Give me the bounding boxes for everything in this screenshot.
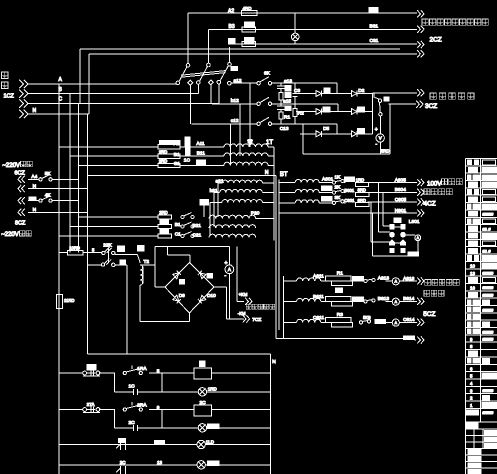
wire T2 bottom to bridge bottom <box>140 285 189 321</box>
svg-text:C605: C605 <box>395 197 407 203</box>
resistor R3 <box>321 312 353 327</box>
svg-text:A605: A605 <box>395 177 407 183</box>
pushbutton 2TA <box>83 402 101 412</box>
svg-text:1RA: 1RA <box>137 366 147 372</box>
svg-text:BT: BT <box>280 172 288 178</box>
svg-text:######: ###### <box>483 272 494 276</box>
arrow output A616 <box>417 277 424 284</box>
winding C611 <box>284 315 325 323</box>
winding A611 <box>284 274 324 282</box>
wire rail to bridge left <box>155 247 165 287</box>
svg-text:A601: A601 <box>322 176 334 182</box>
wire 1T phase A feed <box>59 146 224 148</box>
wire diode row 3 <box>300 124 372 134</box>
connector L601 header <box>394 218 420 225</box>
contact 2C aux row 4 <box>116 460 126 474</box>
lamp 2 indicator <box>198 424 219 432</box>
label 5CZ <box>423 311 435 318</box>
winding C21 <box>192 232 255 238</box>
svg-text:2RD: 2RD <box>159 149 167 154</box>
wire input neutral <box>28 108 89 114</box>
fuse phase B <box>229 22 256 32</box>
wire 380V output phase A row <box>188 13 417 63</box>
switch 6K pole b <box>257 97 277 105</box>
label 4CZ <box>424 201 436 208</box>
svg-text:2RD: 2RD <box>159 210 167 215</box>
svg-text:D9: D9 <box>179 293 185 299</box>
marker row2 right <box>357 107 364 112</box>
wire neutral bottom feed <box>87 353 270 355</box>
svg-text:C21: C21 <box>192 232 201 238</box>
svg-text:B21: B21 <box>192 223 201 229</box>
svg-text:N: N <box>33 184 37 190</box>
winding P20 <box>209 211 274 219</box>
svg-text:13: 13 <box>157 460 163 465</box>
wire A605 output <box>369 177 418 183</box>
arrow C605 <box>417 198 424 205</box>
diode D5 <box>316 126 330 137</box>
marker battery return <box>403 336 414 340</box>
arrow battery return <box>415 336 425 343</box>
bridge diode top-right <box>198 271 206 279</box>
wire rows to DC switch bus <box>371 94 373 134</box>
marker C11 <box>197 160 206 165</box>
svg-text:L601: L601 <box>409 219 420 225</box>
wire b12 tap to transformer 1T <box>239 104 241 156</box>
ammeter small DC <box>225 247 234 319</box>
switch 1K blade B <box>186 147 191 156</box>
latch branch 1C <box>114 373 162 395</box>
label C31 <box>370 38 379 44</box>
svg-text:c12: c12 <box>231 118 239 124</box>
switch 2K row 3 <box>175 232 194 238</box>
svg-text:B1: B1 <box>174 152 180 158</box>
svg-text:A611: A611 <box>313 274 324 280</box>
label 6CZ <box>15 170 26 176</box>
svg-text:4RD: 4RD <box>243 6 253 11</box>
transformer 1T primary coil B <box>224 153 268 156</box>
terminal marker on A row <box>369 7 378 12</box>
switch 22K lower pole <box>87 258 115 266</box>
wire diode row 1 <box>296 83 372 93</box>
text big DC output <box>430 93 474 99</box>
pushbutton 1TA <box>83 365 101 376</box>
svg-text:5RD: 5RD <box>381 149 389 154</box>
parts list table frame <box>466 159 497 474</box>
svg-text:1C: 1C <box>129 384 136 390</box>
switch 2K row 2 <box>175 222 194 228</box>
switch on DC output <box>374 93 382 116</box>
node a13 and capacitor C1 <box>277 78 292 92</box>
svg-text:######: ###### <box>483 330 494 334</box>
winding BT C601 <box>279 200 333 203</box>
ammeter row C611 <box>386 319 400 326</box>
svg-text:######: ###### <box>483 389 494 393</box>
fuse 10RD <box>59 246 101 255</box>
svg-text:R3: R3 <box>337 312 343 318</box>
bus phase A vertical <box>58 84 60 474</box>
wire DC rail top <box>155 246 229 248</box>
fuse 2RD secondary row 2 <box>70 220 172 229</box>
text adjustable line2 <box>424 189 452 195</box>
arrow small DC plus <box>245 298 252 305</box>
capacitor on b13 leg <box>277 99 291 112</box>
label 3CZ <box>425 103 437 110</box>
arrow 380V output C <box>417 41 424 48</box>
label 1C contact <box>184 158 191 164</box>
text 380V output adjustable <box>422 19 488 25</box>
bus neutral vertical <box>86 114 88 354</box>
wire neutral long row <box>87 170 276 176</box>
winding B611 <box>284 294 324 302</box>
input arrow phase B <box>19 90 28 98</box>
svg-text:2RD: 2RD <box>159 159 167 164</box>
switch 1K on A601 <box>322 175 346 185</box>
switch 22K link <box>108 249 110 263</box>
svg-text:R1: R1 <box>337 271 343 277</box>
svg-text:5CZ: 5CZ <box>423 311 435 318</box>
transformer 1T primary coil C <box>224 162 268 165</box>
arrow output B614 <box>417 298 424 305</box>
svg-text:~220V: ~220V <box>1 232 19 238</box>
svg-text:B614: B614 <box>403 296 415 302</box>
svg-text:1K: 1K <box>335 175 342 181</box>
switch 4K row <box>28 192 79 202</box>
svg-text:N: N <box>33 108 37 114</box>
fuse 4RD phase A <box>228 6 257 16</box>
wire b13 row <box>277 103 338 105</box>
fuse 5RD wire <box>303 104 390 154</box>
svg-text:C611: C611 <box>313 315 324 321</box>
svg-text:C1: C1 <box>175 232 181 238</box>
svg-text:A616: A616 <box>403 276 415 282</box>
svg-text:A1: A1 <box>174 141 180 147</box>
svg-text:2K: 2K <box>335 185 342 191</box>
winding B21 <box>192 223 255 229</box>
svg-text:5K6: 5K6 <box>363 315 371 320</box>
transformer T2 <box>140 259 155 285</box>
svg-text:16: 16 <box>470 285 475 290</box>
wire 380V output phase C row <box>230 44 418 62</box>
switch 22K upper pole <box>102 243 115 255</box>
svg-text:+KM: +KM <box>239 292 248 297</box>
svg-text:1LD: 1LD <box>206 440 215 445</box>
text small DC output <box>246 304 274 309</box>
label 13 <box>157 460 163 465</box>
switch 2K on B601 <box>321 185 345 195</box>
wire control row 3 <box>59 444 270 446</box>
arrow 380V output A <box>417 10 424 17</box>
label 7CZ <box>252 317 261 323</box>
arrow output C614 <box>417 319 424 326</box>
label BT <box>280 172 288 178</box>
svg-text:7CZ: 7CZ <box>252 317 261 323</box>
svg-text:9: 9 <box>157 405 160 411</box>
svg-text:######: ###### <box>483 294 494 298</box>
bridge diode top-left <box>173 271 181 279</box>
arrow A605 <box>417 179 424 186</box>
svg-text:######: ###### <box>483 411 494 415</box>
text input label <box>2 72 9 89</box>
label B11 <box>197 151 206 157</box>
svg-text:N601: N601 <box>395 208 407 214</box>
lamp 1LD <box>197 440 215 449</box>
wire minus output <box>226 311 246 319</box>
switch row C611 <box>359 315 385 324</box>
wire N601 output <box>279 208 417 214</box>
svg-text:1RD: 1RD <box>208 387 218 392</box>
title block lower grid <box>466 422 497 474</box>
diode D1 <box>316 91 322 97</box>
wire control row 1 <box>59 372 270 374</box>
resistor R2 <box>293 109 304 124</box>
wire 2CZ feed from phase C bus <box>80 49 400 104</box>
text battery line2 <box>424 290 444 296</box>
meter on L601 <box>405 235 420 252</box>
svg-text:11RD: 11RD <box>64 298 74 303</box>
resistor on a13 leg <box>279 93 283 104</box>
wire lamp row 2 <box>114 427 270 429</box>
svg-text:3CZ: 3CZ <box>425 103 437 110</box>
resistor R1 <box>321 271 353 286</box>
wire C605 output <box>368 197 417 203</box>
svg-text:N: N <box>33 207 37 213</box>
winding BT A601 <box>279 180 333 183</box>
latch branch 2C <box>114 410 162 431</box>
arrow 3CZ output <box>416 101 423 108</box>
marker row1 <box>324 88 330 93</box>
svg-text:B611: B611 <box>313 294 324 300</box>
terminal block marker b13 <box>285 106 291 111</box>
label A11 <box>196 141 205 147</box>
svg-text:A2: A2 <box>228 9 234 15</box>
wire BT bracket vertical <box>283 276 285 339</box>
svg-text:3K: 3K <box>335 195 342 201</box>
marker bridge right <box>207 274 212 279</box>
svg-text:V: V <box>379 136 382 141</box>
svg-text:B601: B601 <box>344 188 354 193</box>
connector L601 pins <box>390 225 406 253</box>
bus phase B vertical <box>69 94 71 253</box>
wire 6CZ N <box>28 184 87 190</box>
switch 6K pole a <box>257 70 277 85</box>
input arrow phase C <box>19 99 28 107</box>
text 100V output adjustable <box>427 179 462 188</box>
wire output A616 <box>399 276 417 282</box>
diode D6 <box>351 131 357 137</box>
marker row3 right <box>357 128 364 133</box>
arrow 8CZ N <box>18 209 25 216</box>
wire B604 output <box>368 187 417 193</box>
fuse 3RD on B601 <box>344 188 369 197</box>
svg-text:+: + <box>375 127 378 133</box>
svg-text:B11: B11 <box>197 151 206 157</box>
wire 1T phase C feed <box>79 164 225 166</box>
label 1CZ <box>4 94 15 100</box>
fuse 2RD phase A <box>158 140 180 148</box>
wire rail jog to bridge top <box>168 247 190 263</box>
svg-text:1CZ: 1CZ <box>4 94 15 100</box>
svg-text:######: ###### <box>483 338 494 342</box>
arrow B604 <box>417 189 424 196</box>
bus phase C vertical <box>78 104 80 253</box>
tap arrow on 1T <box>248 141 253 146</box>
ammeter row A611 <box>386 278 400 285</box>
arrow big DC output <box>417 89 424 96</box>
switch 6K pole c <box>257 117 277 125</box>
coil 1C <box>194 361 212 379</box>
arrow 7CZ <box>243 315 250 322</box>
wire BT feed vertical <box>278 179 280 330</box>
arrow 380V output B <box>417 26 424 33</box>
fuse phase C <box>229 37 256 46</box>
svg-text:######: ###### <box>483 286 494 290</box>
switch 2K row 1 <box>181 213 194 219</box>
indicator lamp on 380V lines <box>291 13 299 44</box>
wire input phase B <box>28 87 198 94</box>
marker on 22K output 2 <box>138 245 145 251</box>
svg-text:2TA: 2TA <box>87 402 95 407</box>
text battery output adjustable <box>425 280 459 286</box>
svg-text:A: A <box>228 267 231 272</box>
knife switch 1K main 3-pole <box>176 62 231 85</box>
fuse 6RD on C601 <box>344 198 369 207</box>
wire knife output to b12 row <box>210 85 212 104</box>
svg-text:1C: 1C <box>184 158 191 164</box>
input arrow neutral <box>19 110 28 118</box>
bridge diode D10 <box>198 293 216 303</box>
contact 2RA <box>123 402 160 411</box>
wire B604 drop to L601 <box>383 192 390 226</box>
svg-text:1T: 1T <box>266 140 273 146</box>
winding BT B601 <box>279 190 333 193</box>
label 2CZ <box>430 37 442 44</box>
transformer 1T primary coil A <box>224 144 268 147</box>
svg-text:~220V: ~220V <box>2 163 20 169</box>
svg-text:6CZ: 6CZ <box>15 170 26 176</box>
wire diode row 2 <box>296 104 372 112</box>
wire output C614 <box>399 317 417 323</box>
lamp row 4 <box>197 461 219 469</box>
wire output B614 <box>399 296 417 302</box>
node b12 <box>212 98 257 104</box>
switch 5K on A4 <box>28 171 79 181</box>
svg-text:B604: B604 <box>395 187 407 193</box>
svg-text:D2: D2 <box>358 88 364 94</box>
svg-text:B1: B1 <box>175 222 181 228</box>
svg-text:N: N <box>265 170 269 176</box>
svg-text:##. #: ##. # <box>483 227 491 231</box>
wire 380V output phase B row <box>209 29 418 63</box>
wire neutral drop to bottom bus <box>275 175 277 338</box>
wire 8CZ N <box>28 207 87 213</box>
svg-text:-KM: -KM <box>238 311 246 316</box>
wire input phase C <box>28 97 219 104</box>
diode D3 <box>316 109 322 115</box>
svg-text:R1: R1 <box>284 115 290 121</box>
label 1T <box>266 140 273 146</box>
terminal marker near knife switch <box>231 67 238 71</box>
svg-text:10RD: 10RD <box>69 246 80 251</box>
arrow 2CZ output <box>417 50 424 57</box>
label B31 <box>370 24 379 30</box>
switch row B611 <box>352 296 389 303</box>
lamp 1 indicator <box>198 387 217 396</box>
arrow 6CZ N <box>18 185 25 192</box>
wire a12 tap to transformer 1T <box>248 83 252 147</box>
svg-text:N: N <box>272 359 276 365</box>
wire phase C stub to knife switch <box>218 84 220 104</box>
wire control row 2 <box>59 409 270 411</box>
svg-text:##. #: ##. # <box>483 250 491 254</box>
wire c13 row <box>277 124 337 154</box>
wire C605 drop to L601 <box>371 202 390 242</box>
winding a21 <box>216 179 274 185</box>
wire control row 4 <box>59 464 270 466</box>
text ~220V output bottom <box>1 231 31 238</box>
arrow 6CZ A4 <box>18 176 25 183</box>
wire lamp row 1 <box>114 391 270 393</box>
svg-text:2C: 2C <box>129 420 136 426</box>
switch 1K blade A <box>185 137 190 146</box>
wire 1T phase B feed <box>70 155 224 157</box>
svg-text:b12: b12 <box>231 98 239 104</box>
svg-text:13: 13 <box>470 271 475 276</box>
svg-text:5: 5 <box>157 369 160 375</box>
svg-text:C614: C614 <box>403 317 415 323</box>
wire c12 tap to transformer 1T <box>230 124 232 166</box>
wire 1T common right vertical <box>268 147 274 240</box>
input arrow phase A <box>19 80 28 88</box>
resistor R2 <box>321 288 353 306</box>
wire input phase A <box>28 77 176 84</box>
contact 1RA <box>123 366 160 375</box>
staircase taps left of windings <box>200 183 222 236</box>
marker row2 left <box>323 107 330 112</box>
switch 3K on C601 <box>321 195 345 205</box>
marker row 3 <box>155 440 165 444</box>
svg-text:10: 10 <box>470 263 475 268</box>
arrow N601 <box>417 209 424 216</box>
fuse 11RD on bus A <box>57 295 75 309</box>
svg-text:C13: C13 <box>280 126 289 132</box>
svg-text:A11: A11 <box>196 141 205 147</box>
wire 22K top pole to T2 <box>115 255 140 264</box>
wire 3CZ output <box>389 103 417 105</box>
svg-text:4CZ: 4CZ <box>424 201 436 208</box>
wire phase B stub to knife switch <box>197 84 199 93</box>
winding b21 <box>210 188 274 194</box>
wire knife output to c12 row <box>189 85 191 124</box>
fuse 1RD on A601 <box>344 177 368 186</box>
wire a13 row <box>277 82 337 84</box>
svg-text:6K: 6K <box>264 70 271 76</box>
arrow 8CZ row with fuse <box>18 197 25 204</box>
svg-text:T2: T2 <box>144 259 150 265</box>
wire battery return row <box>276 338 403 340</box>
winding c21 <box>222 199 274 202</box>
svg-text:A4: A4 <box>31 174 37 180</box>
resistor R1 on b13 leg <box>279 112 290 124</box>
fuse 2RD secondary row 3 <box>59 229 171 238</box>
svg-text:C601: C601 <box>344 198 355 203</box>
svg-text:2C: 2C <box>120 460 127 465</box>
capacitor C3 <box>293 83 301 109</box>
svg-text:C31: C31 <box>370 38 379 44</box>
wire 22K lower pole drop <box>115 265 127 354</box>
wire plus output <box>237 247 248 302</box>
svg-text:B31: B31 <box>370 24 379 30</box>
